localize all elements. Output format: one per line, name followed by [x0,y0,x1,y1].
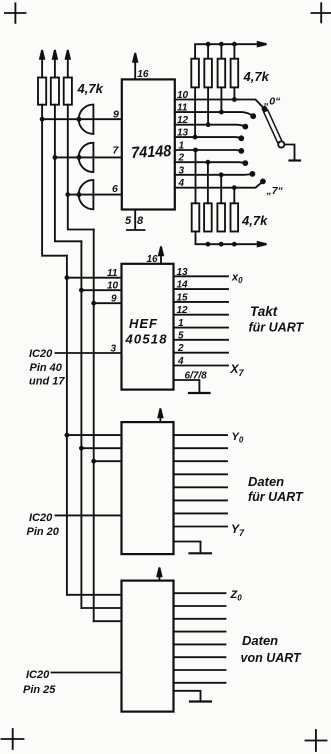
wire U3 out 4 [174,473,228,475]
wire bus C to U2 pin 9 [91,301,121,306]
svg-text:11: 11 [107,268,118,279]
supply rail top-right with arrow [195,42,266,59]
buffer gate G2 [76,143,93,172]
pin 16 supply arrow U1 [133,53,137,79]
wire U1 pin 1 to contact 4 [175,149,242,152]
svg-text:10: 10 [177,90,189,101]
wire U1 pin 2 to contact 5 [175,161,246,164]
svg-text:Takt: Takt [250,304,278,319]
wire U2 pins 6/7/8 to ground [174,380,200,392]
wire R3 vertical down to stair [68,105,94,230]
supply arrow U3 [158,409,162,423]
wire R10 up to pin 3 [219,172,224,203]
svg-text:IC20: IC20 [29,348,53,360]
wire U3 out Y7 [174,526,228,528]
wire bus C to U3 [91,459,121,464]
wire U3 out 5 [174,486,228,488]
svg-text:3: 3 [179,165,185,176]
wire R2 vertical down to stair [55,105,82,242]
resistor R6 [218,59,226,88]
buffer gate G1 [76,105,93,134]
svg-text:16: 16 [147,254,159,265]
ground U1 pins 5 8 [127,210,145,231]
svg-text:4: 4 [177,356,184,367]
resistor R4 [191,59,199,88]
svg-text:1: 1 [179,141,185,152]
svg-text:für UART: für UART [249,321,305,335]
svg-text:11: 11 [177,103,188,114]
wire U4 out 8 [174,682,226,684]
supply arrow above resistor R1 [40,50,44,78]
wire U2 pin 12 [174,314,229,316]
wire bus C vertical [93,230,95,622]
svg-text:5: 5 [125,215,132,227]
IC U2 HEF 40518 [122,264,174,390]
junction R10 rail [219,242,224,247]
buffer gate G3 [76,180,93,209]
svg-text:2: 2 [178,153,185,164]
switch S1 pivot [278,141,284,147]
svg-text:8: 8 [137,215,144,227]
wire U3 to ground [174,542,201,553]
svg-text:Pin 20: Pin 20 [27,526,60,538]
svg-text:Daten: Daten [242,633,278,648]
wire U2 pin 1 [174,327,229,329]
svg-text:6/7/8: 6/7/8 [185,371,208,382]
svg-text:Daten: Daten [248,474,284,489]
wire bus B into U4 [81,607,121,609]
wire U4 to ground [174,691,201,701]
wire R1 vertical down to stair [42,105,67,256]
wire U4 out 2 [174,605,226,607]
wire U3 out 6 [174,499,228,501]
junction R1/G1 [40,117,45,122]
svg-text:„7“: „7“ [266,185,284,197]
wire U1 pin 13 to contact 3 [175,137,242,138]
wire pivot to ground [284,145,294,160]
wire U2 pin 2 [174,352,229,354]
resistor R9 [204,203,212,231]
resistor R10 [217,203,225,231]
wire R11 up to pin 4 [232,185,237,203]
svg-text:13: 13 [177,267,189,278]
svg-text:4,7k: 4,7k [77,81,104,96]
switch contact 1 [250,113,256,119]
svg-text:von UART: von UART [241,651,303,665]
svg-text:9: 9 [111,294,117,305]
registration mark bottom-left [2,729,24,749]
wire U1 pin 4 to contact 7 [175,181,263,187]
wire U4 out Z0 [174,592,226,594]
wire U1 pin 10 to contact 0 [175,100,265,109]
registration mark top-right [312,3,331,22]
supply arrow U4 [157,568,161,581]
svg-text:und 17: und 17 [29,376,65,388]
registration mark bottom-right [306,730,327,751]
wire IC20 pin20 to U3 [56,514,122,516]
wire R7 to rail [232,42,237,59]
IC U3 Daten fuer UART [122,422,174,554]
svg-text:9: 9 [113,109,119,121]
svg-text:X7: X7 [230,362,245,378]
svg-text:Y7: Y7 [231,522,245,538]
wire R7 down to pin 10 [232,87,237,102]
wire R9 up to pin 2 [206,160,211,204]
wire U2 pin 5 [174,339,229,341]
wire U2 pin 13 (X0) [174,275,229,277]
wire bus A into U4 [67,594,122,596]
wire R8 up to pin 1 [193,148,198,204]
switch contact 3 [238,135,244,141]
svg-text:40518: 40518 [125,332,168,347]
wire IC20 pin40 to U2 pin 3 [56,352,122,354]
wire gate G3 input [68,194,122,196]
wire bus A to U3 [65,433,122,438]
svg-text:1: 1 [178,318,184,329]
ground U2 [189,392,210,394]
svg-text:13: 13 [177,128,189,139]
supply arrow above resistor R2 [53,50,57,78]
wire U3 out 7 [174,512,228,514]
switch contact 4 [238,148,244,154]
svg-text:Pin 25: Pin 25 [23,684,56,696]
junction R11 rail [232,242,237,247]
wire R6 down to pin 11 [219,87,224,114]
IC U4 Daten von UART [122,581,174,712]
wire U2 pin 15 [174,301,229,303]
svg-text:Z0: Z0 [230,589,243,603]
svg-text:74148: 74148 [131,142,172,162]
wire U1 pin 11 to contact 1 [175,112,253,116]
junction R9 rail [206,242,211,247]
resistor R3 [64,78,72,105]
switch contact 5 [242,160,248,166]
IC U1 74148 [122,79,175,209]
wire bus B to U3 [79,446,122,451]
wire U1 pin 12 to contact 2 [175,125,246,127]
junction R2/G2 [53,155,58,160]
svg-text:3: 3 [111,344,117,355]
supply rail bottom-right with arrow [196,232,267,247]
svg-text:7: 7 [113,145,120,157]
svg-text:4: 4 [178,178,185,189]
svg-text:x0: x0 [231,272,243,286]
resistor R8 [192,203,200,231]
wire U3 out 3 [174,460,228,462]
resistor R1 [38,78,46,105]
resistor R7 [231,59,239,88]
wire R5 down to pin 12 [206,87,211,127]
switch contact 7 [260,179,266,185]
wire U2 pin 14 [174,288,229,290]
wire R6 to rail [219,42,224,59]
wire bus B to U2 pin 10 [79,288,122,293]
svg-text:„0“: „0“ [263,96,281,108]
wire gate G2 input [55,156,122,158]
svg-text:IC20: IC20 [26,669,50,681]
switch contact 0 [262,106,268,112]
wire gate G1 input [42,118,122,120]
junction R3/G3 [65,192,70,197]
svg-text:4,7k: 4,7k [243,69,270,84]
wire U4 out 6 [174,656,226,658]
wire IC20 pin25 to U4 [52,672,122,674]
svg-text:2: 2 [177,343,184,354]
wire U4 out 3 [174,618,226,620]
switch S1 lever [264,110,282,143]
switch contact 2 [242,124,248,130]
ground switch [290,159,301,161]
svg-text:12: 12 [177,305,189,316]
svg-text:12: 12 [177,115,189,126]
resistor R11 [231,203,239,231]
wire R4 down to pin 13 [193,87,198,139]
svg-text:Pin 40: Pin 40 [30,362,63,374]
wire bus C into U4 [94,620,122,622]
svg-text:IC20: IC20 [29,512,53,524]
registration mark top-left [5,3,26,23]
wire U3 out 2 [174,447,228,449]
resistor R5 [204,59,212,88]
svg-text:10: 10 [107,281,119,292]
svg-text:15: 15 [177,292,189,303]
svg-text:16: 16 [137,69,149,80]
svg-text:4,7k: 4,7k [241,213,268,228]
svg-text:6: 6 [112,183,118,195]
wire U4 out 5 [174,643,226,645]
wire bus A vertical [66,256,68,595]
switch contact 6 [250,171,256,177]
wire U1 pin 3 to contact 6 [175,173,253,176]
svg-text:HEF: HEF [129,316,158,331]
supply arrow above resistor R3 [66,50,70,78]
pin 16 supply arrow U2 [159,247,163,264]
svg-text:14: 14 [177,280,189,291]
wire U4 out 4 [174,631,226,633]
wire U3 out Y0 [174,434,228,436]
ground U4 [190,700,211,702]
wire bus A to U2 pin 11 [65,275,122,280]
wire bus B vertical [80,241,82,608]
svg-text:für UART: für UART [248,490,304,504]
wire U2 pin 4 (X7) [174,365,229,367]
svg-text:5: 5 [178,330,184,341]
svg-text:Y0: Y0 [232,431,244,445]
ground U3 [190,552,212,554]
resistor R2 [51,78,59,105]
wire R5 to rail [206,42,211,59]
wire U4 out 7 [174,669,226,671]
